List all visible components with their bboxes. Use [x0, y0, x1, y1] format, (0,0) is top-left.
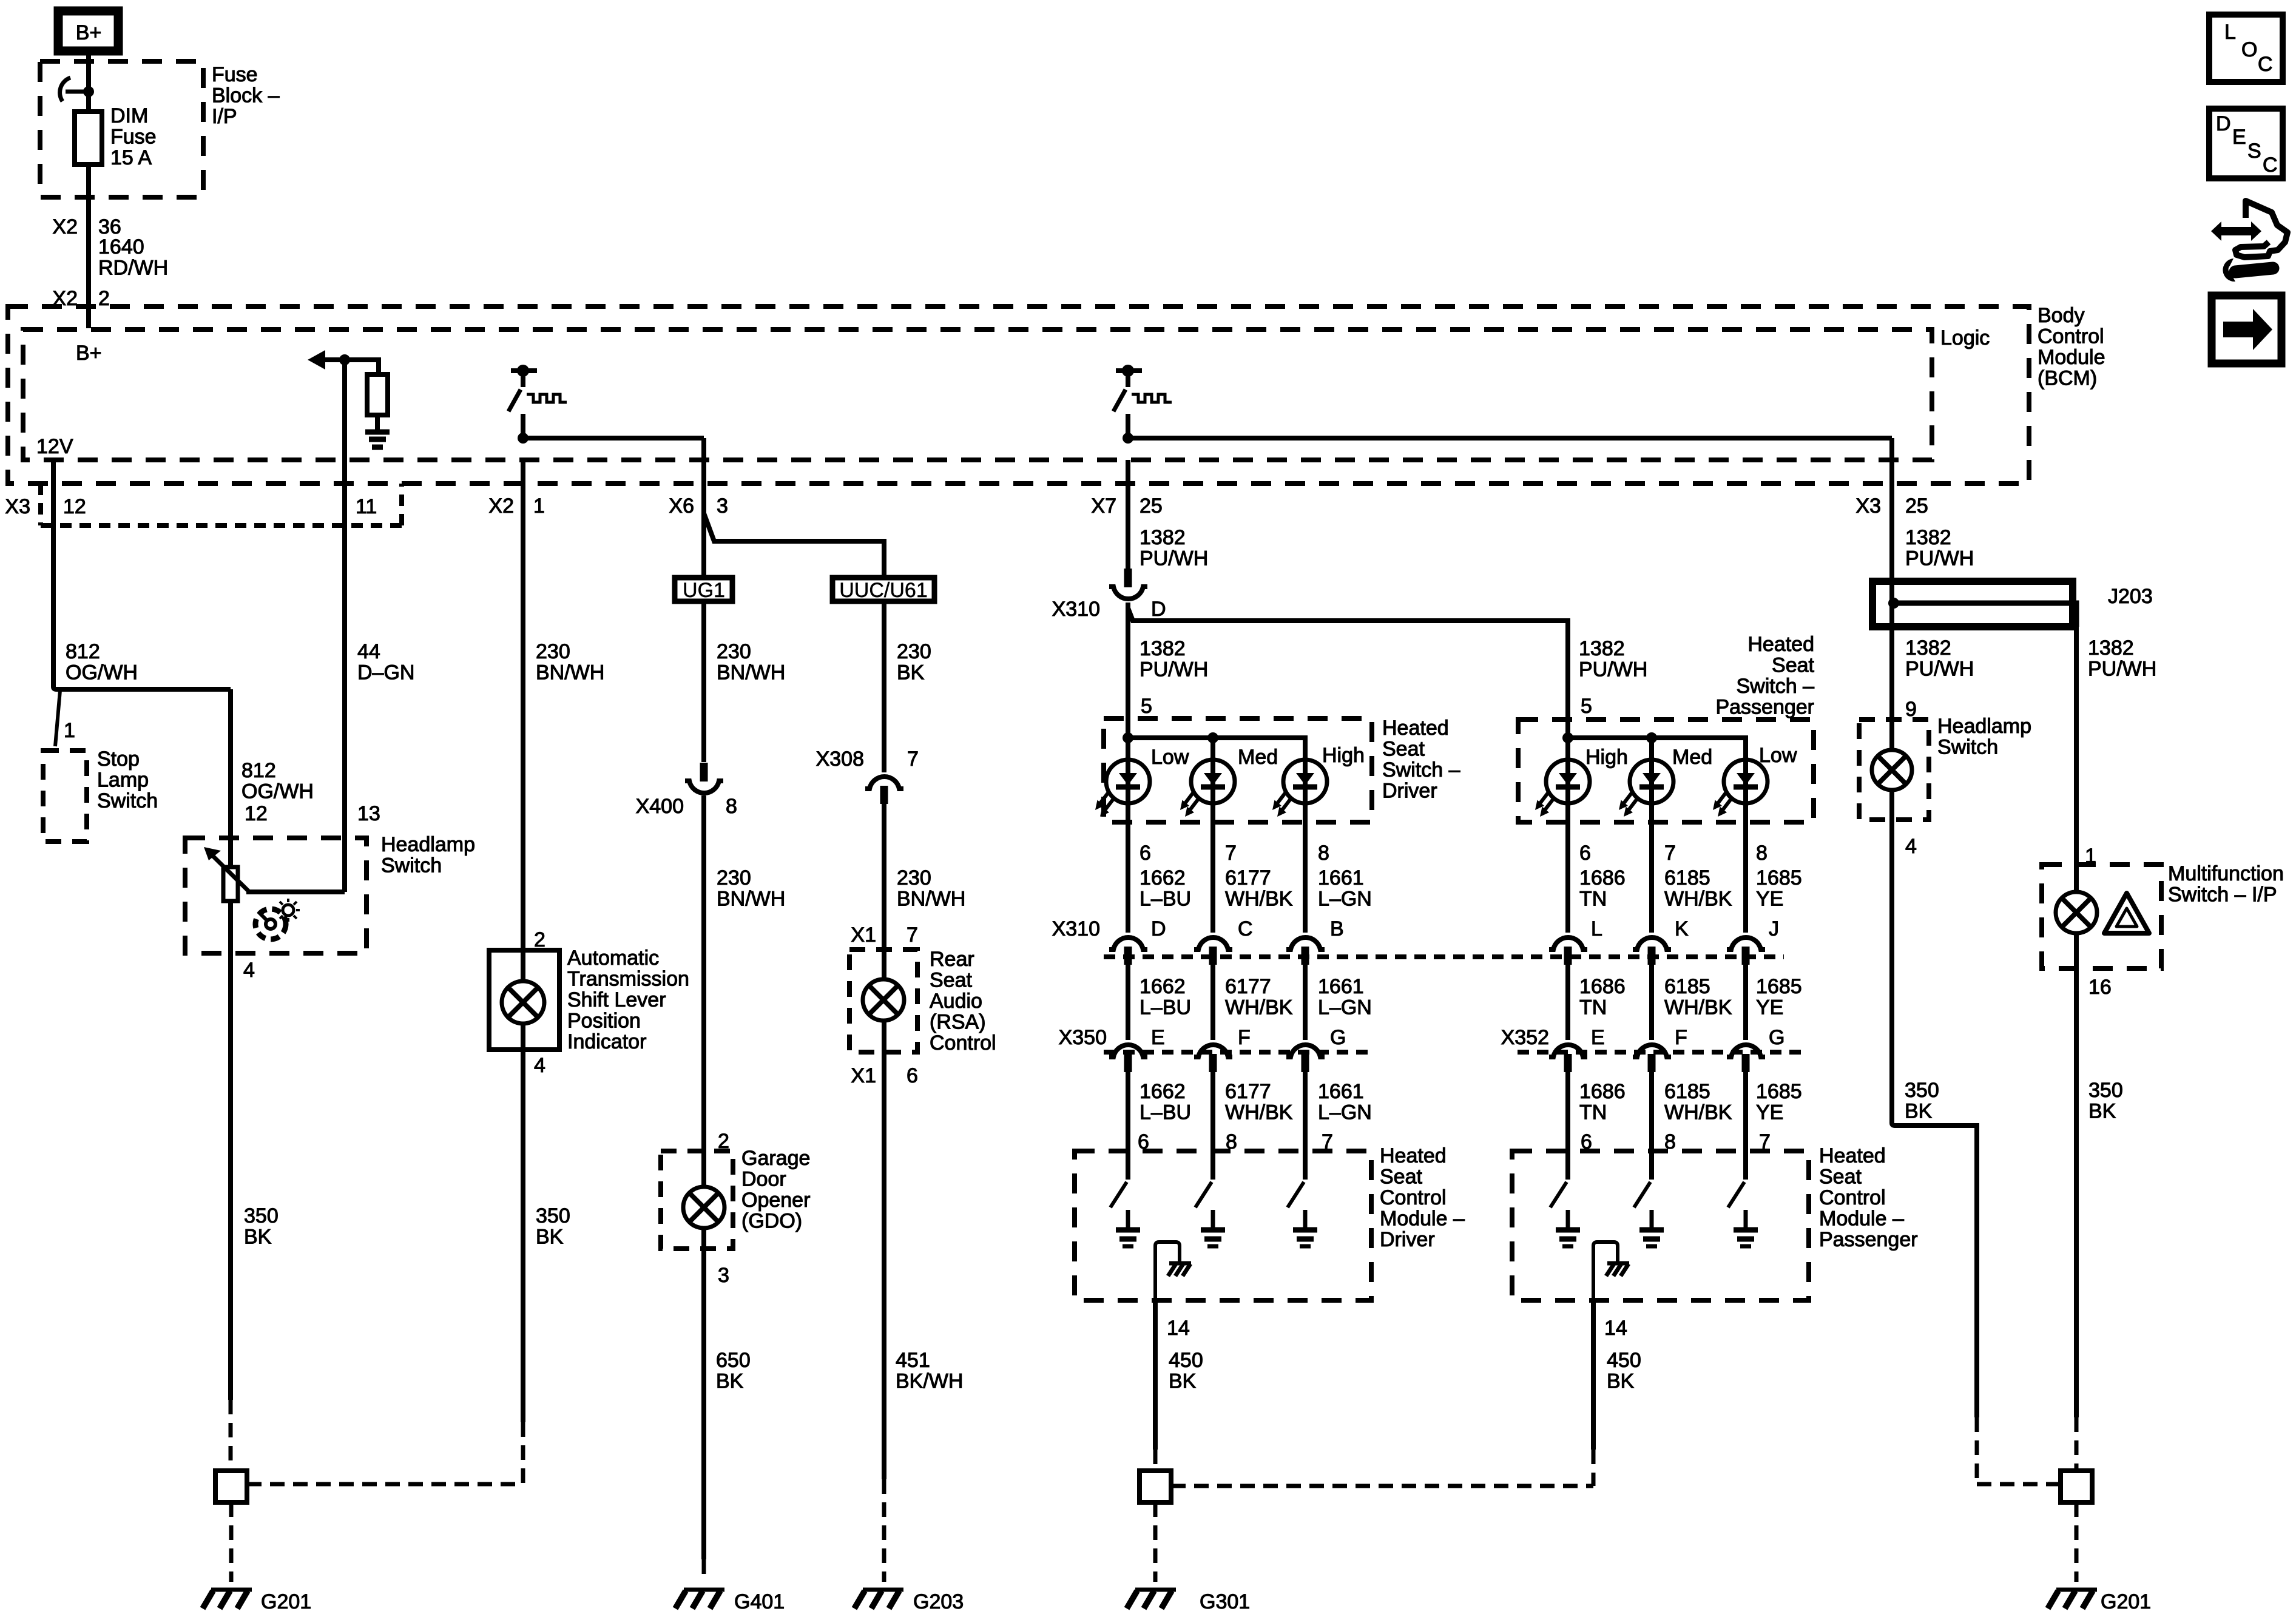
- svg-text:Control: Control: [1380, 1186, 1447, 1209]
- svg-text:230: 230: [717, 866, 751, 890]
- Garage Door Opener dashed box: [661, 1151, 733, 1249]
- dashed wire below square G301: [1153, 1502, 1158, 1582]
- LED High driver: [1272, 760, 1327, 817]
- wire UUC to X308: [882, 601, 886, 772]
- junction node pin 11 net: [339, 354, 350, 365]
- svg-text:Seat: Seat: [1819, 1166, 1862, 1189]
- svg-text:12: 12: [245, 802, 268, 825]
- wire wiper to 44 D-GN: [246, 890, 345, 894]
- svg-text:Indicator: Indicator: [567, 1030, 646, 1053]
- svg-text:RD/WH: RD/WH: [98, 257, 168, 280]
- passenger module switch 2: [1634, 1151, 1664, 1246]
- connector X350 G: [1286, 1045, 1325, 1072]
- svg-text:14: 14: [1604, 1317, 1627, 1340]
- wire J203 to headlamp switch: [1889, 627, 1894, 751]
- svg-text:L: L: [2224, 21, 2236, 44]
- passenger module switch 1: [1550, 1151, 1580, 1246]
- svg-text:X1: X1: [851, 1064, 876, 1087]
- BCM Logic inner dashed box: [23, 329, 1932, 460]
- svg-text:X352: X352: [1501, 1026, 1549, 1049]
- svg-text:J: J: [1769, 917, 1779, 940]
- svg-text:350: 350: [2088, 1079, 2123, 1102]
- svg-text:1686: 1686: [1579, 975, 1626, 998]
- connector X310 L: [1549, 937, 1587, 965]
- wire X3-25 right down to J203: [1889, 438, 1894, 627]
- X310 connector row dotted line: [1104, 954, 1784, 959]
- svg-text:WH/BK: WH/BK: [1664, 1101, 1732, 1124]
- svg-text:OG/WH: OG/WH: [241, 780, 314, 803]
- svg-text:Body: Body: [2038, 304, 2085, 327]
- svg-text:YE: YE: [1756, 888, 1783, 911]
- svg-text:Switch –: Switch –: [1737, 675, 1815, 698]
- svg-text:Heated: Heated: [1382, 717, 1449, 740]
- svg-text:Low: Low: [1759, 744, 1797, 767]
- driver module switch 1: [1110, 1151, 1140, 1246]
- svg-text:G301: G301: [1200, 1590, 1250, 1613]
- connector X310 K: [1633, 937, 1671, 965]
- svg-text:Switch – I/P: Switch – I/P: [2168, 883, 2277, 906]
- LED Low driver: [1095, 760, 1150, 817]
- svg-text:BN/WH: BN/WH: [717, 661, 785, 684]
- svg-text:8: 8: [1318, 842, 1329, 865]
- bus to X3-25: [1128, 436, 1892, 441]
- svg-text:J203: J203: [2108, 585, 2153, 608]
- svg-text:1: 1: [533, 495, 545, 518]
- svg-text:X1: X1: [851, 923, 876, 947]
- svg-text:High: High: [1585, 746, 1628, 769]
- junction driver bus 2: [1207, 732, 1218, 743]
- svg-text:812: 812: [241, 759, 276, 782]
- svg-text:1662: 1662: [1140, 1080, 1186, 1103]
- svg-text:WH/BK: WH/BK: [1225, 996, 1293, 1019]
- svg-text:X310: X310: [1052, 598, 1100, 621]
- dashed wire below square G201 left: [229, 1502, 234, 1582]
- LED Low passenger: [1713, 760, 1768, 817]
- wire ATSLPI 350 BK: [521, 1024, 525, 1422]
- svg-text:YE: YE: [1756, 996, 1783, 1019]
- svg-text:Heated: Heated: [1819, 1144, 1886, 1167]
- svg-text:D: D: [1151, 598, 1166, 621]
- svg-text:Block –: Block –: [212, 84, 280, 107]
- svg-text:350: 350: [1905, 1079, 1939, 1102]
- svg-text:4: 4: [243, 959, 255, 982]
- Multifunction Switch dashed box: [2042, 865, 2161, 968]
- wire 450 BK passenger: [1591, 1300, 1596, 1450]
- svg-text:L–GN: L–GN: [1318, 996, 1372, 1019]
- svg-text:4: 4: [1905, 835, 1917, 858]
- wire to stop lamp switch pin 1: [55, 690, 60, 746]
- Headlamp Switch dashed box (dimmer): [185, 838, 366, 953]
- wire 350 BK stop/headlamp: [229, 1400, 233, 1471]
- driver module internal ground: [1155, 1242, 1180, 1300]
- wire UG1 to X400: [701, 601, 706, 762]
- svg-text:Fuse: Fuse: [212, 63, 258, 86]
- svg-text:44: 44: [357, 640, 380, 663]
- svg-text:450: 450: [1169, 1349, 1203, 1372]
- svg-text:25: 25: [1905, 495, 1928, 518]
- wire 450 BK driver: [1153, 1300, 1158, 1450]
- junction J203: [1888, 598, 1899, 609]
- svg-text:Lamp: Lamp: [97, 769, 149, 792]
- svg-text:Position: Position: [567, 1010, 641, 1033]
- J203 internal bus: [1892, 603, 2076, 627]
- dashed wire below square G201 right: [2075, 1502, 2079, 1582]
- wire branch to UUC/U61: [704, 513, 884, 578]
- fuse DIM 15A: [75, 112, 102, 164]
- svg-text:7: 7: [1225, 842, 1237, 865]
- hazard triangle icon: [2104, 893, 2149, 933]
- headlamp dimmer dial icon: [255, 899, 300, 939]
- LED Med driver: [1180, 760, 1235, 817]
- wire passenger LED med: [1649, 738, 1654, 1180]
- Heated Seat Switch - Driver dashed box: [1104, 718, 1372, 822]
- svg-text:TN: TN: [1579, 996, 1607, 1019]
- RSA lamp: [863, 979, 904, 1021]
- connector X310 C: [1194, 937, 1232, 965]
- svg-text:7: 7: [1664, 842, 1676, 865]
- svg-text:X400: X400: [636, 795, 684, 818]
- svg-text:1382: 1382: [1140, 526, 1186, 549]
- Automatic Transmission Shift Lever Position Indicator box: [489, 950, 559, 1050]
- svg-text:UUC/U61: UUC/U61: [839, 579, 927, 602]
- svg-text:D–GN: D–GN: [357, 661, 414, 684]
- ground G203: [854, 1590, 903, 1609]
- svg-text:X2: X2: [488, 495, 514, 518]
- svg-text:Control: Control: [930, 1031, 996, 1055]
- svg-text:6185: 6185: [1664, 1080, 1710, 1103]
- svg-text:Switch –: Switch –: [1382, 758, 1460, 781]
- svg-text:WH/BK: WH/BK: [1225, 888, 1293, 911]
- svg-text:UG1: UG1: [683, 579, 725, 602]
- svg-text:X2: X2: [52, 215, 78, 238]
- connector X352 G: [1727, 1045, 1765, 1072]
- svg-text:1685: 1685: [1756, 1080, 1802, 1103]
- svg-text:PU/WH: PU/WH: [1140, 658, 1208, 681]
- svg-text:1685: 1685: [1756, 866, 1802, 890]
- wire X2-1 down to ATSLPI: [521, 460, 525, 981]
- svg-text:O: O: [2241, 38, 2257, 61]
- UG1 box: [675, 578, 732, 601]
- svg-text:1382: 1382: [1579, 637, 1625, 660]
- svg-text:C: C: [1238, 917, 1253, 940]
- B+ terminal box: [58, 11, 118, 51]
- fuse block connector hook: [60, 78, 89, 101]
- svg-text:E: E: [1591, 1026, 1605, 1049]
- connector X308: [865, 777, 903, 804]
- wire to driver heated seat switch: [1126, 603, 1130, 738]
- svg-text:X308: X308: [816, 748, 864, 771]
- Rear Seat Audio dashed box: [849, 950, 917, 1052]
- passenger module switch 3: [1728, 1151, 1758, 1246]
- passenger module internal ground: [1593, 1242, 1618, 1300]
- svg-text:12: 12: [63, 495, 86, 518]
- svg-text:Passenger: Passenger: [1819, 1228, 1918, 1251]
- svg-text:Low: Low: [1151, 746, 1189, 769]
- svg-text:12V: 12V: [36, 435, 73, 458]
- diagnostic arrow-wrench icon: [2211, 201, 2288, 272]
- svg-text:S: S: [2247, 140, 2261, 163]
- svg-text:PU/WH: PU/WH: [1579, 658, 1647, 681]
- ground G301: [1127, 1590, 1176, 1609]
- svg-text:6185: 6185: [1664, 866, 1710, 890]
- connector X310 J: [1727, 937, 1765, 965]
- svg-text:Automatic: Automatic: [567, 947, 659, 970]
- svg-text:BK: BK: [1607, 1370, 1635, 1393]
- LED Med passenger: [1619, 760, 1673, 817]
- svg-text:Seat: Seat: [1382, 738, 1425, 761]
- svg-text:230: 230: [897, 640, 931, 663]
- svg-text:14: 14: [1167, 1317, 1190, 1340]
- svg-text:8: 8: [1756, 842, 1768, 865]
- svg-text:L–BU: L–BU: [1140, 996, 1191, 1019]
- svg-text:6185: 6185: [1664, 975, 1710, 998]
- svg-text:25: 25: [1140, 495, 1163, 518]
- ground G201 right: [2048, 1590, 2097, 1609]
- svg-text:B+: B+: [76, 342, 102, 365]
- svg-text:Module –: Module –: [1380, 1207, 1465, 1230]
- multifunction lamp: [2056, 892, 2097, 933]
- svg-text:X7: X7: [1091, 495, 1116, 518]
- svg-text:G203: G203: [913, 1590, 964, 1613]
- svg-text:5: 5: [1141, 695, 1152, 718]
- svg-text:6177: 6177: [1225, 866, 1271, 890]
- arrow to logic (output): [308, 350, 325, 370]
- svg-text:BK: BK: [716, 1370, 744, 1393]
- wire driver LED high: [1303, 760, 1308, 1180]
- svg-text:L–GN: L–GN: [1318, 888, 1372, 911]
- connector X310 B: [1286, 937, 1325, 965]
- svg-text:Stop: Stop: [97, 748, 140, 771]
- connector X310 D (upper): [1109, 569, 1147, 599]
- svg-text:PU/WH: PU/WH: [1140, 547, 1208, 570]
- svg-text:Headlamp: Headlamp: [1937, 715, 2031, 738]
- wire 350 BK multifunction: [2074, 933, 2079, 1417]
- svg-text:WH/BK: WH/BK: [1664, 888, 1732, 911]
- X352 connector row dotted line: [1518, 1050, 1809, 1055]
- svg-text:F: F: [1238, 1026, 1251, 1049]
- svg-text:Med: Med: [1238, 746, 1278, 769]
- BCM switch 2 (heated seats): [1113, 365, 1172, 411]
- svg-text:230: 230: [536, 640, 570, 663]
- wire X6 branch to UG1: [701, 438, 706, 578]
- svg-text:WH/BK: WH/BK: [1664, 996, 1732, 1019]
- svg-text:C: C: [2258, 53, 2273, 76]
- svg-text:BN/WH: BN/WH: [897, 888, 965, 911]
- svg-text:1662: 1662: [1140, 975, 1186, 998]
- svg-text:Logic: Logic: [1940, 326, 1990, 349]
- svg-text:Driver: Driver: [1382, 780, 1437, 803]
- svg-text:BK: BK: [244, 1226, 272, 1249]
- svg-text:G: G: [1330, 1026, 1346, 1049]
- svg-text:Control: Control: [1819, 1186, 1886, 1209]
- svg-text:TN: TN: [1579, 888, 1607, 911]
- svg-text:1: 1: [64, 719, 75, 742]
- svg-text:WH/BK: WH/BK: [1225, 1101, 1293, 1124]
- svg-text:OG/WH: OG/WH: [66, 661, 138, 684]
- svg-text:G401: G401: [734, 1590, 785, 1613]
- svg-text:BN/WH: BN/WH: [717, 888, 785, 911]
- svg-text:BN/WH: BN/WH: [536, 661, 604, 684]
- J203 splice pack box: [1872, 581, 2073, 627]
- X3 connector dotted box (pins 12 / 11): [41, 484, 402, 525]
- svg-text:7: 7: [907, 923, 918, 947]
- connector X400: [685, 763, 723, 793]
- splice square G201 right: [2061, 1471, 2092, 1502]
- svg-text:I/P: I/P: [212, 105, 237, 128]
- svg-text:B: B: [1330, 917, 1344, 940]
- svg-text:Seat: Seat: [1380, 1166, 1422, 1189]
- fuse block dashed box Fuse Block - I/P: [40, 61, 203, 197]
- UUC/U61 box: [832, 578, 934, 601]
- svg-text:Garage: Garage: [741, 1147, 810, 1170]
- svg-text:6: 6: [907, 1064, 918, 1087]
- Heated Seat Switch - Passenger dashed box: [1518, 720, 1814, 822]
- Body Control Module outer dashed box: [8, 306, 2029, 484]
- svg-text:C: C: [2263, 154, 2278, 177]
- svg-text:G: G: [1769, 1026, 1784, 1049]
- svg-text:Switch: Switch: [1937, 736, 1998, 759]
- svg-text:1382: 1382: [1905, 636, 1951, 660]
- next-page arrow box: [2212, 295, 2281, 363]
- svg-text:Driver: Driver: [1380, 1228, 1435, 1251]
- driver module switch 3: [1288, 1151, 1317, 1246]
- svg-text:BK: BK: [897, 661, 925, 684]
- svg-text:1661: 1661: [1318, 866, 1364, 890]
- wire X400 to GDO: [701, 795, 706, 1187]
- wire driver LED med: [1210, 738, 1215, 1180]
- wire through potentiometer: [228, 689, 233, 1400]
- Headlamp Switch dashed box (illumination): [1859, 720, 1929, 820]
- junction driver bus 1: [1123, 732, 1133, 743]
- svg-text:DIM: DIM: [110, 104, 148, 127]
- svg-text:PU/WH: PU/WH: [1905, 547, 1974, 570]
- branch wire to passenger heated seat switch: [1128, 608, 1568, 738]
- junction passenger bus 1: [1562, 732, 1573, 743]
- wire 650 BK: [701, 1228, 706, 1559]
- svg-text:Transmission: Transmission: [567, 968, 689, 991]
- svg-text:Control: Control: [2038, 325, 2104, 348]
- BCM switch 1 (interior lamps dimming): [508, 365, 567, 411]
- svg-text:6: 6: [1140, 842, 1151, 865]
- svg-text:Module: Module: [2038, 346, 2105, 369]
- ATSLPI lamp: [502, 981, 544, 1024]
- wire 812 OG/WH from X3-12: [53, 460, 231, 689]
- connector X350 F: [1194, 1045, 1232, 1072]
- driver module switch 2: [1195, 1151, 1225, 1246]
- wire from B+ to fuse: [86, 51, 91, 112]
- svg-text:450: 450: [1607, 1349, 1641, 1372]
- svg-text:D: D: [1151, 917, 1166, 940]
- svg-text:Switch: Switch: [97, 789, 158, 812]
- svg-text:K: K: [1675, 917, 1689, 940]
- svg-text:Rear: Rear: [930, 948, 974, 971]
- resistor inside BCM: [367, 374, 388, 415]
- svg-text:Headlamp: Headlamp: [381, 833, 475, 856]
- svg-text:L–BU: L–BU: [1140, 1101, 1191, 1124]
- connector X352 F: [1633, 1045, 1671, 1072]
- svg-text:High: High: [1322, 744, 1365, 767]
- svg-text:11: 11: [356, 495, 377, 518]
- svg-text:Module –: Module –: [1819, 1207, 1904, 1230]
- svg-text:2: 2: [98, 287, 110, 310]
- svg-text:BK: BK: [1169, 1370, 1197, 1393]
- svg-text:G201: G201: [2101, 1590, 2151, 1613]
- svg-text:8: 8: [726, 795, 737, 818]
- svg-text:Door: Door: [741, 1168, 786, 1191]
- svg-text:1662: 1662: [1140, 866, 1186, 890]
- potentiometer wiper arrow: [209, 852, 249, 891]
- wire passenger LED low: [1743, 760, 1748, 1180]
- svg-text:812: 812: [66, 640, 100, 663]
- wire 451 BK/WH: [882, 1021, 886, 1479]
- svg-text:230: 230: [717, 640, 751, 663]
- wire driver LED low: [1126, 738, 1130, 1180]
- connector X352 E: [1549, 1045, 1587, 1072]
- svg-text:3: 3: [717, 495, 728, 518]
- svg-text:TN: TN: [1579, 1101, 1607, 1124]
- svg-text:5: 5: [1581, 695, 1592, 718]
- svg-text:X6: X6: [669, 495, 694, 518]
- svg-text:G201: G201: [261, 1590, 311, 1613]
- svg-text:1661: 1661: [1318, 975, 1364, 998]
- svg-text:6177: 6177: [1225, 975, 1271, 998]
- svg-text:YE: YE: [1756, 1101, 1783, 1124]
- svg-text:350: 350: [536, 1204, 570, 1227]
- connector X310 D: [1109, 937, 1147, 965]
- svg-text:1686: 1686: [1579, 1080, 1626, 1103]
- svg-text:Multifunction: Multifunction: [2168, 862, 2284, 885]
- svg-text:Seat: Seat: [930, 969, 972, 992]
- wire X308 to RSA: [882, 804, 886, 979]
- svg-text:B+: B+: [76, 21, 102, 44]
- svg-text:Heated: Heated: [1380, 1144, 1447, 1167]
- svg-text:1640: 1640: [98, 235, 144, 258]
- GDO lamp: [683, 1187, 724, 1228]
- connector X350 E: [1109, 1045, 1147, 1072]
- svg-text:1382: 1382: [2088, 636, 2134, 660]
- svg-text:D: D: [2216, 112, 2231, 135]
- svg-text:X3: X3: [5, 495, 30, 518]
- svg-text:3: 3: [718, 1264, 729, 1287]
- ground G201 left: [203, 1590, 252, 1609]
- X350 connector row dotted line: [1104, 1050, 1372, 1055]
- svg-text:E: E: [1151, 1026, 1165, 1049]
- dashed link square to ATSLPI wire: [247, 1482, 523, 1487]
- svg-text:E: E: [2232, 126, 2246, 149]
- svg-text:L–GN: L–GN: [1318, 1101, 1372, 1124]
- DESC reference box: [2209, 109, 2283, 178]
- svg-text:PU/WH: PU/WH: [2088, 658, 2156, 681]
- svg-text:Switch: Switch: [381, 854, 442, 877]
- splice square G201 left: [215, 1471, 247, 1502]
- wire X7-25 down: [1126, 460, 1130, 569]
- svg-text:Med: Med: [1672, 746, 1712, 769]
- headlamp switch lamp: [1872, 750, 1912, 790]
- svg-text:1661: 1661: [1318, 1080, 1364, 1103]
- driver LED bus: [1128, 738, 1305, 760]
- junction switch1 bus: [518, 433, 528, 444]
- svg-text:13: 13: [357, 802, 380, 825]
- svg-text:650: 650: [716, 1349, 751, 1372]
- svg-text:PU/WH: PU/WH: [1905, 658, 1974, 681]
- svg-text:Seat: Seat: [1772, 654, 1814, 677]
- wire 350 BK headlamp right: [1892, 790, 1977, 1417]
- ground G401: [675, 1590, 724, 1609]
- svg-text:451: 451: [896, 1349, 930, 1372]
- svg-text:6177: 6177: [1225, 1080, 1271, 1103]
- svg-text:L–BU: L–BU: [1140, 888, 1191, 911]
- wire switch1 down: [521, 414, 525, 438]
